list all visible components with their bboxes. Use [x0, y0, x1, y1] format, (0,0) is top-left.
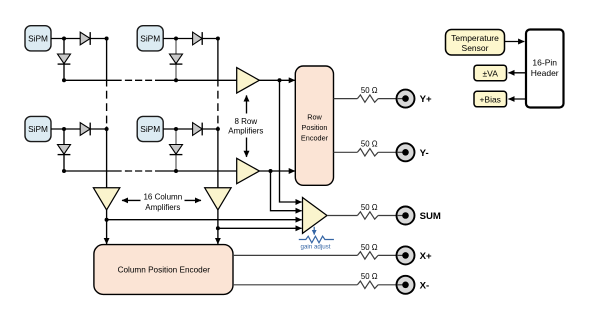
- wire X+ to connector: [378, 254, 405, 256]
- wire column 2 to column encoder: [217, 210, 219, 244]
- wire row line 2 solid left: [64, 170, 122, 172]
- svg-text:Y+: Y+: [420, 94, 432, 105]
- label 16 Column Amplifiers arrow right: [185, 199, 202, 201]
- op-amp summing amplifier A5: [303, 198, 328, 234]
- wire row line 2 dashed: [125, 170, 152, 172]
- node column2 row2: [216, 127, 220, 131]
- op-amp column amplifier A4: [205, 188, 231, 210]
- wire SiPM 1 output: [51, 38, 107, 40]
- diode D3a: [80, 123, 90, 136]
- node amp A2 output: [269, 169, 273, 173]
- node column2 row1: [216, 37, 220, 41]
- SiPM 4: [137, 116, 163, 141]
- label 16 Column Amplifiers arrow left: [122, 199, 141, 201]
- wire row line 2 solid right: [155, 170, 237, 172]
- 16-Pin Header J6: [526, 30, 564, 108]
- svg-text:Temperature: Temperature: [451, 33, 499, 43]
- op-amp row amplifier A1: [237, 68, 260, 93]
- wire header to Bias: [509, 98, 527, 100]
- wire amp A1 branch to summer: [280, 80, 302, 202]
- svg-text:±VA: ±VA: [483, 68, 499, 78]
- label 8 Row Amplifiers: [228, 117, 263, 136]
- wire Y+ to connector: [378, 98, 405, 100]
- diode D3b: [58, 145, 71, 155]
- node row2 left: [62, 169, 66, 173]
- node column1 row1: [105, 37, 109, 41]
- svg-text:SiPM: SiPM: [140, 34, 160, 44]
- node row1 sipm2: [174, 78, 178, 82]
- wire amp A2 branch to summer: [271, 171, 302, 211]
- svg-text:50 Ω: 50 Ω: [361, 86, 378, 95]
- wire column line 2 solid bottom: [217, 127, 219, 188]
- node row1 left: [62, 78, 66, 82]
- wire column line 1 solid top: [106, 39, 108, 87]
- svg-text:Amplifiers: Amplifiers: [228, 127, 263, 136]
- diode D4a: [193, 123, 203, 136]
- wire column line 2 dashed: [217, 91, 219, 124]
- wire row line 1 dashed: [125, 79, 152, 81]
- svg-text:X+: X+: [420, 251, 432, 262]
- svg-text:50 Ω: 50 Ω: [361, 243, 378, 252]
- connector J2 Y-: [397, 143, 415, 161]
- svg-text:8 Row: 8 Row: [234, 117, 257, 126]
- svg-text:16 Column: 16 Column: [143, 192, 182, 201]
- svg-text:SiPM: SiPM: [140, 124, 160, 134]
- resistor R5 50 ohm: [357, 281, 378, 288]
- Row Position Encoder U1: [295, 66, 333, 185]
- diode D1a: [80, 32, 90, 45]
- wire header to VA: [509, 72, 527, 74]
- svg-text:50 Ω: 50 Ω: [361, 203, 378, 212]
- op-amp row amplifier A2: [237, 158, 260, 183]
- SiPM 3: [25, 116, 51, 141]
- wire X+ output: [233, 254, 357, 256]
- svg-text:SiPM: SiPM: [28, 124, 48, 134]
- wire X- output: [233, 284, 357, 286]
- wire SiPM 4 output: [163, 128, 218, 130]
- connector J1 Y+: [397, 90, 415, 108]
- wire SiPM 4 row drop: [175, 129, 177, 171]
- wire amp A2 output to encoder: [259, 170, 295, 172]
- svg-text:SiPM: SiPM: [28, 34, 48, 44]
- resistor R2 50 ohm: [357, 149, 378, 156]
- diode D1b: [58, 54, 71, 64]
- svg-text:Amplifiers: Amplifiers: [145, 203, 180, 212]
- node SiPM3 anode: [62, 127, 66, 131]
- svg-text:16-Pin: 16-Pin: [532, 57, 557, 67]
- supply box plusminus VA: [474, 65, 507, 81]
- svg-text:SUM: SUM: [420, 211, 441, 222]
- wire SUM output: [327, 215, 357, 217]
- SiPM 2: [137, 26, 163, 51]
- connector J5 X-: [397, 276, 415, 294]
- wire column line 1 dashed: [106, 91, 108, 124]
- wire amp A1 output to encoder: [259, 79, 295, 81]
- label 16 Column Amplifiers: [143, 192, 182, 211]
- wire SiPM 3 row drop: [63, 129, 65, 171]
- node amp A1 output: [278, 78, 282, 82]
- diode D2a: [193, 32, 203, 45]
- wire column2 branch to summer: [218, 227, 302, 229]
- svg-text:50 Ω: 50 Ω: [361, 272, 378, 281]
- svg-text:X-: X-: [420, 280, 430, 291]
- wire SiPM 2 output: [163, 38, 218, 40]
- node SiPM1 anode: [62, 37, 66, 41]
- wire column line 1 solid bottom: [106, 127, 108, 188]
- wire Y- to connector: [378, 151, 405, 153]
- resistor R4 50 ohm: [357, 252, 378, 259]
- wire Y- output: [334, 151, 358, 153]
- svg-text:Y-: Y-: [420, 148, 429, 159]
- diode D2b: [170, 54, 183, 64]
- wire column1 branch to summer: [107, 219, 302, 221]
- potentiometer gain adjust arrow: [313, 227, 315, 235]
- wire row line 1 solid right: [155, 79, 237, 81]
- supply box plus Bias: [474, 91, 507, 107]
- wire SiPM 1 row drop: [63, 39, 65, 81]
- wire Y+ output: [334, 98, 358, 100]
- connector J4 X+: [397, 246, 415, 264]
- node column2 sum branch: [216, 226, 220, 230]
- resistor R1 50 ohm: [357, 95, 378, 102]
- wire column 1 to column encoder: [106, 210, 108, 244]
- svg-text:Sensor: Sensor: [462, 43, 489, 53]
- svg-text:50 Ω: 50 Ω: [361, 140, 378, 149]
- node row2 sipm4: [174, 169, 178, 173]
- label 8 Row Amplifiers arrow down: [246, 138, 248, 157]
- potentiometer gain adjust resistor: [299, 236, 334, 243]
- wire SiPM 3 output: [51, 128, 107, 130]
- diode D4b: [170, 145, 183, 155]
- node SiPM4 anode: [174, 127, 178, 131]
- op-amp column amplifier A3: [93, 188, 119, 210]
- svg-text:Column Position Encoder: Column Position Encoder: [118, 266, 211, 275]
- svg-text:Encoder: Encoder: [301, 134, 329, 143]
- svg-text:Row: Row: [307, 112, 322, 121]
- svg-text:Header: Header: [531, 68, 559, 78]
- SiPM 1: [25, 26, 51, 51]
- Temperature Sensor U3: [446, 30, 505, 56]
- wire temperature sensor to header: [505, 41, 525, 43]
- node column1 sum branch: [105, 218, 109, 222]
- node column1 row2: [105, 127, 109, 131]
- connector J3 SUM: [397, 207, 415, 225]
- svg-text:Position: Position: [302, 123, 328, 132]
- wire SUM to connector: [378, 215, 405, 217]
- svg-text:gain adjust: gain adjust: [301, 244, 331, 251]
- node SiPM2 anode: [174, 37, 178, 41]
- resistor R3 50 ohm: [357, 212, 378, 219]
- wire row line 1 solid left: [64, 79, 122, 81]
- svg-text:+Bias: +Bias: [479, 95, 501, 105]
- wire X- to connector: [378, 284, 405, 286]
- label 8 Row Amplifiers arrow up: [246, 95, 248, 113]
- wire column line 2 solid top: [217, 39, 219, 87]
- Column Position Encoder U2: [94, 245, 233, 295]
- wire SiPM 2 row drop: [175, 39, 177, 81]
